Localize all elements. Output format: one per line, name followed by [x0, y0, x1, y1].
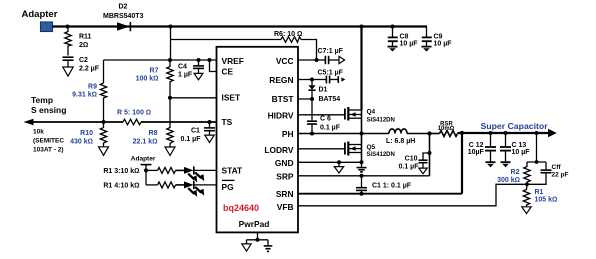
node REGN/D1/C5	[310, 78, 314, 82]
pin STAT	[222, 166, 244, 176]
svg-text:2Ω: 2Ω	[79, 42, 88, 49]
svg-text:C4: C4	[178, 63, 187, 70]
arrow to super capacitor	[481, 121, 557, 138]
resistor RSR	[430, 121, 458, 136]
svg-text:Super Capacitor: Super Capacitor	[481, 121, 549, 131]
wire super capacitor output	[458, 132, 549, 134]
capacitor C13	[500, 133, 530, 161]
svg-text:10 µF: 10 µF	[434, 41, 453, 48]
ground under C4	[194, 73, 203, 79]
svg-text:C9: C9	[434, 33, 443, 40]
capacitor C2	[63, 57, 100, 73]
pin BTST	[272, 94, 295, 104]
svg-text:2.2 µF: 2.2 µF	[79, 65, 100, 72]
node SRN/C11	[360, 192, 364, 196]
svg-text:Q4: Q4	[367, 109, 376, 116]
svg-text:C5:1 µF: C5:1 µF	[318, 69, 344, 76]
node L/RSR/SRP	[427, 131, 431, 135]
thermistor note 10k SEMITEC	[33, 129, 64, 154]
node PH/Q4/Q5	[360, 132, 364, 136]
pin TS	[222, 117, 233, 127]
svg-text:TS: TS	[222, 117, 233, 127]
ground under C9	[422, 47, 432, 52]
capacitor Cff	[527, 162, 569, 184]
svg-text:(SEMITEC: (SEMITEC	[33, 138, 64, 145]
svg-text:C1: C1	[191, 128, 200, 135]
svg-text:VREF: VREF	[222, 56, 244, 66]
wire VREF line	[104, 59, 218, 61]
pin ISET	[222, 93, 241, 103]
node output/R2 drop	[535, 131, 539, 135]
pin SRN	[276, 189, 294, 199]
svg-text:C 6: C 6	[320, 115, 331, 122]
svg-text:Temp: Temp	[31, 95, 53, 105]
pin GND	[275, 158, 294, 168]
PwrPad label	[239, 219, 270, 229]
resistor R10	[70, 122, 107, 147]
svg-text:C1 1: 0.1 µF: C1 1: 0.1 µF	[372, 183, 412, 190]
svg-text:PH: PH	[282, 129, 294, 139]
svg-text:R2: R2	[511, 169, 520, 176]
node RSR/SRN riser	[460, 131, 464, 135]
resistor R9	[72, 83, 107, 122]
resistor R7	[136, 60, 174, 98]
svg-text:100 kΩ: 100 kΩ	[136, 76, 159, 83]
node GND/Q5 source	[360, 160, 364, 164]
node riser/C10	[428, 151, 432, 155]
ground under C1	[205, 135, 214, 142]
wire ISET line	[170, 97, 217, 99]
diode D1 BAT54	[308, 80, 340, 103]
wire CE tie	[210, 60, 218, 72]
node SRP/C11	[360, 174, 364, 178]
wire Q4 source to PH	[361, 110, 363, 134]
svg-text:L: 6.8 µH: L: 6.8 µH	[386, 138, 415, 145]
node BTST/D1/C6	[310, 97, 314, 101]
capacitor C7	[317, 48, 344, 64]
svg-text:103AT - 2): 103AT - 2)	[33, 147, 64, 154]
svg-text:BTST: BTST	[272, 94, 295, 104]
svg-text:R 5: 100 Ω: R 5: 100 Ω	[117, 110, 151, 117]
wire GND line	[298, 161, 362, 163]
svg-text:1 µF: 1 µF	[178, 72, 193, 79]
node VCC/R6/C7	[315, 58, 319, 62]
wire BTST	[298, 98, 312, 100]
wire VCC	[298, 59, 317, 61]
ground (earth) under PwrPad	[264, 246, 273, 252]
op-amp U1 bq24640 body	[217, 47, 299, 233]
ground (earth) under Q5	[357, 162, 367, 172]
pin PG (active low)	[222, 180, 235, 191]
svg-text:R8: R8	[149, 130, 158, 137]
svg-text:VFB: VFB	[277, 202, 294, 212]
svg-text:S ensing: S ensing	[31, 105, 66, 115]
temp sensing labels	[31, 95, 66, 115]
svg-text:SRP: SRP	[276, 172, 294, 182]
node adapter/STAT row	[144, 168, 148, 172]
svg-text:R11: R11	[79, 33, 92, 40]
resistor R5	[117, 110, 151, 125]
ground (triangle) on GND line	[334, 162, 343, 173]
ground under C12	[486, 162, 496, 167]
node rail/R11	[66, 25, 70, 29]
wire R9 riser from VREF line	[103, 60, 105, 83]
capacitor C12	[468, 133, 496, 161]
svg-text:300 kΩ: 300 kΩ	[497, 177, 520, 184]
svg-text:SiS412DN: SiS412DN	[367, 118, 395, 124]
node VREF/CE	[208, 58, 212, 62]
node VREF/C4	[197, 58, 201, 62]
capacitor C6 (bootstrap)	[307, 99, 341, 134]
svg-text:10k: 10k	[33, 129, 44, 136]
svg-text:9.31 kΩ: 9.31 kΩ	[72, 92, 97, 99]
wire SRN line	[298, 193, 462, 195]
pin SRP	[276, 172, 294, 182]
svg-text:105 kΩ: 105 kΩ	[535, 197, 558, 204]
capacitor C11	[356, 176, 412, 194]
wire HIDRV	[298, 114, 344, 116]
svg-text:D2: D2	[119, 4, 128, 11]
svg-text:R7: R7	[150, 67, 159, 74]
adapter supply for LEDs	[131, 156, 156, 171]
pin REGN	[269, 75, 293, 85]
wire adapter rail	[53, 25, 428, 27]
svg-text:10 µF: 10 µF	[400, 41, 419, 48]
wire Q5 drain/source vertical	[361, 134, 363, 163]
resistor R8	[133, 98, 174, 147]
resistor R13	[103, 167, 184, 175]
svg-text:R9: R9	[88, 83, 97, 90]
svg-text:SRN: SRN	[276, 189, 294, 199]
diode D2	[103, 4, 144, 32]
svg-text:MBRS540T3: MBRS540T3	[103, 13, 144, 20]
capacitor C5	[312, 69, 344, 83]
svg-text:0.1 µF: 0.1 µF	[399, 164, 420, 171]
capacitor C10	[399, 153, 430, 171]
svg-text:R6: 10 Ω: R6: 10 Ω	[274, 31, 302, 38]
node PwrPad ground tee	[256, 238, 260, 242]
resistor R1	[523, 184, 557, 206]
pin VREF	[222, 56, 244, 66]
wire SRN riser	[461, 133, 463, 194]
capacitor C4	[178, 60, 204, 79]
resistor R2	[497, 162, 530, 184]
node ISET/R7/R8	[168, 96, 172, 100]
svg-text:R1 4:10 kΩ: R1 4:10 kΩ	[103, 183, 139, 190]
LED D3 (STAT)	[184, 166, 217, 182]
svg-text:22 pF: 22 pF	[552, 171, 569, 178]
pin CE	[222, 66, 234, 76]
svg-text:22.1 kΩ: 22.1 kΩ	[133, 139, 158, 146]
svg-text:SiS412DN: SiS412DN	[367, 152, 395, 158]
node PH/C6	[310, 132, 314, 136]
wire SRP line	[298, 175, 430, 177]
svg-text:GND: GND	[275, 158, 294, 168]
svg-text:C2: C2	[79, 57, 88, 64]
wire Q4 drain riser	[360, 27, 362, 111]
resistor R11	[65, 27, 92, 56]
ground under R1	[522, 207, 531, 214]
pin PH	[282, 129, 294, 139]
TS sense wire with arrow	[24, 119, 218, 125]
svg-text:Q5: Q5	[367, 144, 376, 151]
ground (triangle) under PwrPad	[242, 244, 251, 251]
wire rail down to VREF line	[170, 27, 172, 61]
pin LODRV	[264, 145, 294, 155]
svg-text:VCC: VCC	[276, 56, 294, 66]
svg-text:ISET: ISET	[222, 93, 241, 103]
IC part number	[223, 203, 259, 213]
ground under C8	[388, 47, 398, 52]
off-page tap at C5	[338, 76, 345, 83]
svg-text:Adapter: Adapter	[22, 9, 58, 20]
wire LODRV	[298, 148, 344, 150]
svg-text:430 kΩ: 430 kΩ	[70, 139, 93, 146]
LED D4 (PG)	[184, 181, 217, 197]
ground under C2	[63, 67, 73, 76]
wire PH line	[298, 133, 389, 135]
svg-text:LODRV: LODRV	[264, 145, 294, 155]
svg-text:R1: R1	[535, 189, 544, 196]
svg-text:R1 3:10 kΩ: R1 3:10 kΩ	[103, 168, 139, 175]
pin HIDRV	[268, 110, 294, 120]
svg-text:PwrPad: PwrPad	[239, 219, 270, 229]
inductor L 6.8uH	[386, 129, 430, 145]
svg-text:HIDRV: HIDRV	[268, 110, 294, 120]
wire VFB line	[298, 184, 527, 206]
wire R6 branch	[171, 40, 317, 61]
svg-text:STAT: STAT	[222, 166, 244, 176]
svg-text:0.1 µF: 0.1 µF	[181, 136, 202, 143]
ground under R10	[99, 147, 109, 156]
adapter connector	[41, 22, 53, 32]
node output/C13	[504, 131, 508, 135]
svg-text:Adapter: Adapter	[131, 156, 156, 163]
svg-text:bq24640: bq24640	[223, 203, 259, 213]
off-page arrow at C7	[339, 56, 345, 63]
node VREF/R7	[168, 58, 172, 62]
node R2/Cff top	[535, 160, 539, 164]
ground under C13	[501, 162, 511, 167]
svg-text:Cff: Cff	[552, 164, 562, 171]
pin VCC	[276, 56, 294, 66]
resistor R6	[274, 31, 302, 43]
wire adapter down to PG row	[145, 170, 147, 185]
node R2/R1/VFB	[525, 182, 529, 186]
node output/C12	[489, 131, 493, 135]
capacitor C9	[422, 27, 452, 48]
node TS/C1	[208, 120, 212, 124]
node rail/VREF drop	[169, 25, 173, 29]
resistor R14	[103, 182, 184, 190]
svg-text:10mΩ: 10mΩ	[438, 126, 455, 132]
ground under R8	[165, 147, 175, 156]
capacitor C8	[388, 27, 418, 48]
svg-text:10µF: 10µF	[468, 149, 485, 156]
svg-text:D1: D1	[319, 86, 328, 93]
svg-text:C10: C10	[405, 156, 418, 163]
wire SRP riser	[429, 134, 431, 176]
svg-text:PG: PG	[222, 182, 234, 192]
node rail/C8	[391, 25, 395, 29]
node GND/triangle ground	[337, 160, 341, 164]
pin VFB	[277, 202, 294, 212]
transistor Q4 SiS412DN	[345, 107, 395, 124]
wire PwrPad to ground	[247, 233, 269, 245]
svg-text:R10: R10	[80, 130, 93, 137]
adapter input label	[22, 9, 58, 20]
svg-text:10 µF: 10 µF	[512, 149, 531, 156]
svg-text:BAT54: BAT54	[319, 96, 341, 103]
capacitor C1	[181, 122, 216, 143]
svg-text:C8: C8	[400, 33, 409, 40]
svg-text:CE: CE	[222, 66, 234, 76]
transistor Q5 SiS412DN	[345, 142, 395, 158]
wire REGN	[298, 79, 312, 81]
svg-text:REGN: REGN	[269, 75, 293, 85]
node TS/R9/R10	[102, 120, 106, 124]
svg-text:0.1 µF: 0.1 µF	[320, 125, 341, 132]
node rail/Q4	[360, 25, 364, 29]
ground under C10	[419, 168, 427, 174]
svg-text:C7:1 µF: C7:1 µF	[318, 48, 344, 55]
wire feedback drop	[527, 133, 546, 162]
